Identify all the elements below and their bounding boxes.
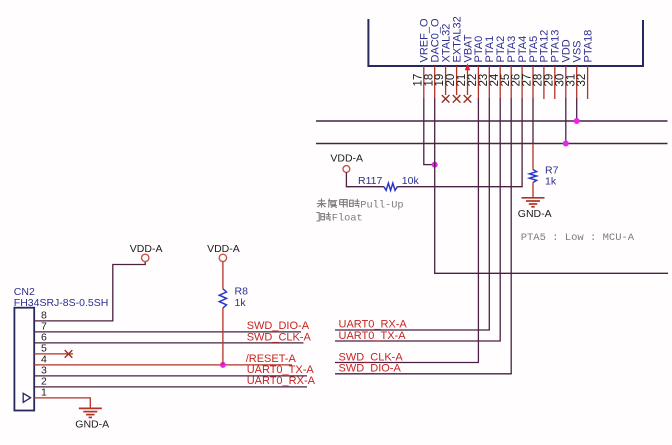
wire SWD_DIO-A (pin7) — [34, 331, 301, 333]
svg-text:10k: 10k — [402, 175, 420, 187]
VDD-A power circle (R8) — [219, 254, 226, 261]
pin 18 (DAC0_O) stub — [434, 66, 436, 99]
no-connect X on pin 20 — [453, 95, 461, 103]
svg-text:SWD_DIO-A: SWD_DIO-A — [339, 363, 402, 375]
pin 23 (PTA1) stub — [488, 66, 490, 99]
CN2 pin1 wire to ground — [34, 398, 90, 408]
wire VDD-A stem to R117 — [346, 172, 384, 186]
no-connect X on CN2 pin5 — [65, 350, 73, 358]
svg-text:R8: R8 — [235, 285, 249, 297]
ground GND-A (CN2) — [79, 408, 102, 417]
svg-text:32: 32 — [576, 74, 588, 87]
wire PTA5 to R7 — [532, 144, 534, 170]
resistor R8 body — [219, 289, 226, 308]
svg-text:1k: 1k — [235, 297, 247, 309]
pin 31 (VSS) stub — [576, 66, 578, 99]
wire R7 to ground — [532, 183, 534, 198]
pin 17 (VREF_O) stub — [423, 66, 425, 99]
pin 28 (PTA12) stub — [543, 66, 545, 99]
wire UART0_RX-A (pin2) — [34, 386, 307, 388]
pin 20 (EXTAL32) stub — [456, 66, 458, 95]
svg-text:SWD_CLK-A: SWD_CLK-A — [339, 351, 404, 363]
pin 29 (PTA13) stub — [554, 66, 556, 99]
VSS rail wire — [316, 120, 668, 122]
svg-text:GND-A: GND-A — [75, 419, 109, 431]
pin 30 (VDD) stub — [565, 66, 567, 99]
wire pin18 DAC0_O down — [434, 98, 436, 273]
VDD-A power circle (CN2) — [142, 254, 149, 261]
svg-text:VDD-A: VDD-A — [130, 243, 163, 255]
svg-text:VDD-A: VDD-A — [330, 153, 363, 165]
CN2 pin4 /RESET-A wire — [34, 364, 292, 366]
pin 27 (PTA5) stub — [532, 66, 534, 99]
svg-text:PTA5 : Low : MCU-A: PTA5 : Low : MCU-A — [521, 232, 635, 244]
wire SWD_CLK-A (pin6) — [34, 342, 303, 344]
wire UART0_TX-A (pin3) — [34, 375, 307, 377]
VDD rail wire — [316, 143, 668, 145]
wire pin8 to VDD-A — [34, 262, 145, 321]
svg-text:Pull-Up: Pull-Up — [360, 199, 403, 211]
connector pin-1 triangle — [23, 393, 30, 402]
wire UART0_RX-A horizontal — [335, 329, 490, 331]
junction dot VSS/rail — [574, 118, 580, 124]
wire VDD-A to R8 — [222, 262, 224, 289]
wire pin22 PTA0 down — [477, 98, 479, 362]
wire pin30 VDD down — [565, 98, 567, 143]
pin 22 (PTA0) stub — [477, 66, 479, 99]
CN2 pin5 stub wire — [34, 353, 73, 355]
svg-text:UART0_RX-A: UART0_RX-A — [339, 319, 408, 331]
svg-text:Float: Float — [332, 213, 363, 225]
pin 32 (PTA18) stub — [587, 66, 589, 99]
wire SWD_DIO-A horizontal — [335, 373, 512, 375]
wire pin17 jog right — [423, 164, 435, 166]
note kanji ]時 — [316, 212, 331, 221]
wire UART0_TX-A horizontal — [335, 340, 501, 342]
wire pin26 PTA4 down — [521, 98, 523, 186]
junction dot VDD/rail — [563, 141, 569, 147]
connector CN2 body — [14, 308, 34, 411]
ground GND-A (R7) — [522, 198, 545, 207]
svg-text:PTA18: PTA18 — [582, 30, 594, 63]
pin 19 (XTAL32) stub — [445, 66, 447, 95]
svg-text:SWD_CLK-A: SWD_CLK-A — [247, 331, 312, 343]
svg-text:VDD-A: VDD-A — [207, 243, 240, 255]
no-connect X on pin 19 — [442, 95, 450, 103]
junction dot R8//RESET-A — [220, 362, 226, 368]
VDD-A power circle (R117) — [343, 166, 350, 173]
svg-text:1k: 1k — [545, 175, 557, 187]
wire pin27 PTA5 down — [532, 98, 534, 143]
pin 21 (VBAT) stub — [467, 66, 469, 95]
pin 25 (PTA3) stub — [510, 66, 512, 99]
wire R8 to /RESET-A — [222, 308, 224, 365]
pin 26 (PTA4) stub — [521, 66, 523, 99]
svg-text:UART0_TX-A: UART0_TX-A — [339, 330, 407, 342]
op IC U-MCU outline (open-top box) — [368, 19, 643, 66]
wire pin25 PTA3 down — [510, 98, 512, 373]
junction dot VREF_O/DAC0_O — [432, 162, 438, 168]
resistor R7 body — [529, 170, 536, 183]
svg-text:GND-A: GND-A — [518, 208, 552, 220]
red up-arrow on pin 21 VBAT — [465, 63, 471, 70]
wire pin31 VSS down — [576, 98, 578, 121]
svg-text:1: 1 — [41, 387, 47, 399]
wire R117 to PTA4 — [397, 186, 522, 188]
svg-text:UART0_RX-A: UART0_RX-A — [247, 375, 316, 387]
svg-text:R117: R117 — [358, 175, 382, 187]
wire pin17 VREF_O down — [423, 98, 425, 164]
no-connect X on pin 21 — [464, 95, 472, 103]
pin 24 (PTA2) stub — [499, 66, 501, 99]
note kanji 未使用時 — [317, 198, 360, 207]
wire SWD_CLK-A horizontal — [335, 362, 479, 364]
wire pin23 PTA1 down — [488, 98, 490, 330]
wire DAC0_O net to right edge — [434, 272, 668, 274]
resistor R117 body — [384, 183, 397, 190]
wire pin24 PTA2 down — [499, 98, 501, 341]
